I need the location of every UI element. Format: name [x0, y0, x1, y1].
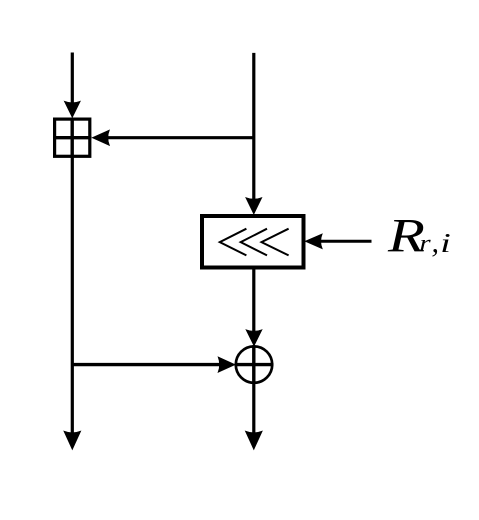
arrowhead into adder from right (left-pointing): [92, 130, 109, 146]
arrowhead into XOR from left (right-pointing): [218, 357, 235, 373]
wire: XOR to bottom output: [252, 384, 255, 434]
arrowhead left output (down): [64, 431, 81, 450]
modular adder box (boxed plus): [53, 118, 92, 159]
arrowhead into adder (down): [64, 101, 80, 118]
svg-text:r: r: [420, 230, 431, 255]
arrowhead into rotate box from right (left-pointing): [305, 234, 322, 249]
wire: left input vertical (top segment): [71, 53, 74, 105]
label R_r,i: [387, 208, 451, 262]
svg-text:,: ,: [432, 226, 440, 259]
svg-text:i: i: [440, 229, 451, 259]
wire: left branch to XOR: [72, 363, 219, 366]
rotate-left box: [202, 216, 304, 268]
wire: left output vertical: [71, 158, 74, 434]
arrowhead into shift box (down): [246, 198, 262, 215]
wire: rotate box to XOR: [252, 270, 255, 334]
wire: horizontal from right branch into adder: [108, 136, 254, 139]
wire: arrow stem from label R_r,i: [321, 240, 372, 243]
arrowhead right output (down): [245, 431, 262, 450]
arrowhead into XOR from top (down): [246, 330, 262, 346]
wire: right input vertical: [252, 53, 255, 201]
chevrons <<< inside rotate box: [220, 229, 289, 256]
XOR node (circled plus): [235, 345, 274, 384]
